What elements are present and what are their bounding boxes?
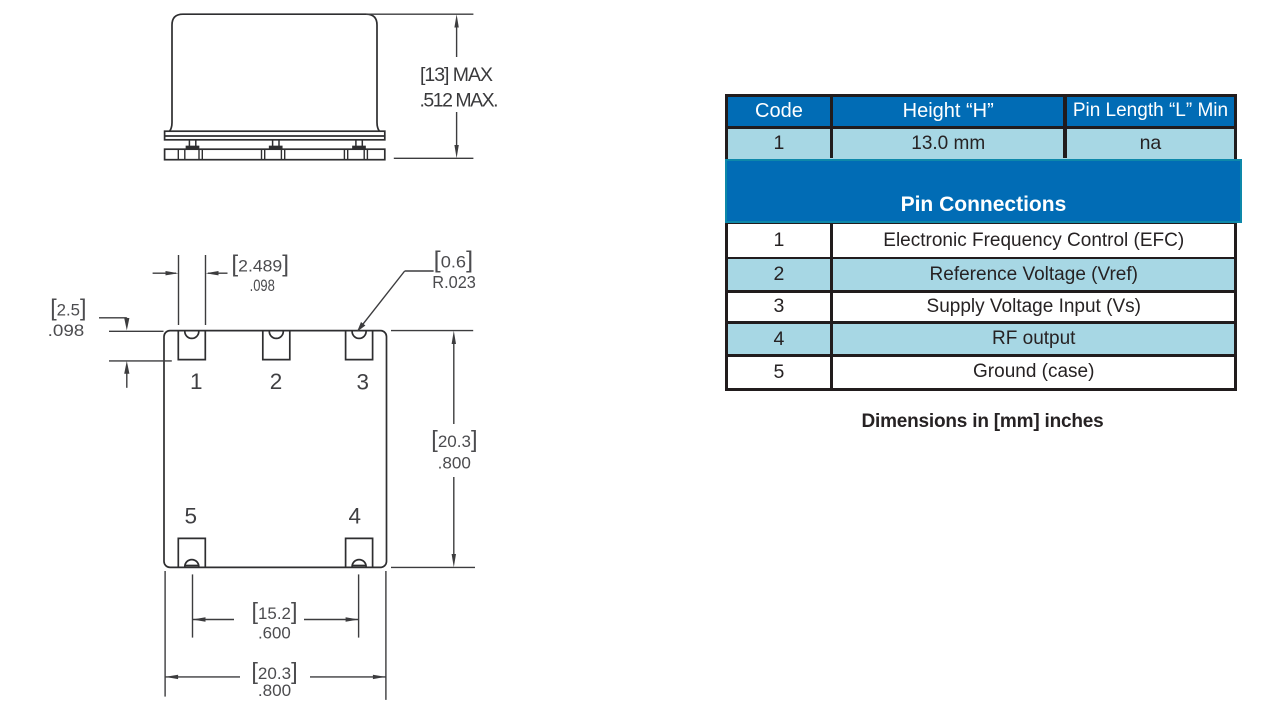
- Pin Connections banner: [725, 159, 1243, 223]
- row 2: [728, 259, 1234, 290]
- svg-text:5: 5: [184, 503, 197, 528]
- header row background: [728, 97, 1234, 126]
- side view: flange: [165, 131, 385, 140]
- svg-text:.512 MAX.: .512 MAX.: [420, 90, 499, 112]
- header text Code: [728, 97, 829, 126]
- dimension [15.2]/.600 pin spacing: [193, 574, 359, 637]
- side view: pin 1 washer: [186, 146, 198, 149]
- header text Height H: [833, 97, 1063, 126]
- svg-text:R.023: R.023: [432, 272, 476, 292]
- svg-text:3: 3: [356, 370, 369, 395]
- svg-text:.800: .800: [258, 681, 291, 700]
- notch chord pin 4: [352, 565, 366, 567]
- row 4: [728, 324, 1234, 354]
- code row text 13.0 mm: [833, 129, 1063, 159]
- side view: pin 2 stem: [272, 140, 274, 147]
- svg-text:1: 1: [190, 369, 203, 394]
- svg-text:[2.489]: [2.489]: [231, 251, 289, 277]
- side view: base strip: [165, 149, 385, 160]
- header text Pin Length L Min: [1067, 97, 1234, 126]
- svg-text:[15.2]: [15.2]: [252, 598, 298, 624]
- notch pin 5: [185, 560, 199, 567]
- code row background: [728, 129, 1234, 159]
- svg-text:.098: .098: [48, 321, 85, 340]
- side view: pin 2 washer: [270, 146, 282, 149]
- pad pin 3: [346, 331, 373, 360]
- leader [0.6]/R.023: [358, 271, 434, 330]
- header col dividers: [830, 97, 834, 158]
- dimension [20.3]/.800 body width: [165, 571, 386, 700]
- pin col divider: [830, 224, 834, 388]
- code row text na: [1067, 129, 1234, 159]
- svg-text:[0.6]: [0.6]: [434, 247, 473, 273]
- svg-text:2: 2: [270, 369, 283, 394]
- notch pin 2: [269, 331, 283, 338]
- svg-text:.098: .098: [250, 276, 275, 295]
- pin number labels: [184, 369, 369, 529]
- caption: [733, 410, 1233, 434]
- extension line top: [366, 13, 473, 15]
- pad pin 2: [263, 331, 290, 360]
- svg-text:[13] MAX: [13] MAX: [420, 64, 493, 86]
- svg-text:[2.5]: [2.5]: [50, 295, 86, 321]
- notch chord pin 5: [185, 565, 199, 567]
- table outer frame: [725, 94, 1237, 391]
- row 1: [728, 224, 1234, 257]
- dimension line: [456, 25, 458, 57]
- notch pin 1: [185, 331, 199, 338]
- height dimension [13] MAX: [366, 14, 473, 158]
- side view: pin 3 washer: [353, 146, 365, 149]
- pad pin 4: [346, 538, 373, 567]
- svg-text:4: 4: [349, 503, 362, 528]
- side view: can body: [170, 14, 380, 131]
- dimension [2.489]/.098 pin width: [153, 255, 228, 325]
- dimension [20.3]/.800 body height: [391, 331, 475, 568]
- code row text 1: [728, 129, 829, 159]
- extension line bottom: [394, 157, 474, 159]
- pad pin 1: [178, 331, 205, 360]
- svg-text:.800: .800: [438, 453, 471, 472]
- svg-text:.600: .600: [258, 623, 291, 642]
- pad pin 5: [178, 538, 205, 567]
- notch pin 4: [352, 560, 366, 567]
- row 5: [728, 357, 1234, 388]
- notch pin 3: [352, 331, 366, 338]
- row 3: [728, 293, 1234, 322]
- pin row texts: [728, 224, 829, 257]
- top view: package body: [164, 331, 387, 568]
- horizontal row borders: [728, 257, 1234, 259]
- side view: pin 1 stem: [186, 140, 365, 149]
- side view: pin 3 stem: [355, 140, 357, 147]
- svg-text:[20.3]: [20.3]: [431, 426, 477, 452]
- dimension [2.5]/.098 pad depth: [99, 318, 172, 388]
